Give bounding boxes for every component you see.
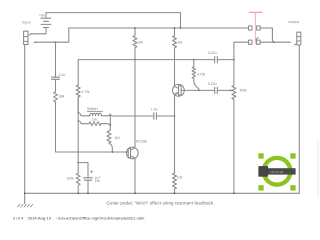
wire emitter net y116 [110, 115, 174, 118]
wire tap to electrolytic [78, 163, 88, 178]
logo banner block [258, 166, 268, 177]
logo green ring [264, 158, 291, 185]
resistor R10 10k [173, 116, 177, 193]
svg-text:0.1u: 0.1u [59, 73, 66, 77]
logo corner pads [258, 153, 263, 158]
svg-text:circuit lab: circuit lab [270, 170, 283, 174]
svg-text:2 of 4 2014-Aug-19 ~/Lin: 2 of 4 2014-Aug-19 ~/Linux/OpenOffice.or… [13, 215, 145, 220]
svg-text:100k: 100k [66, 176, 74, 180]
wire ground rail [25, 192, 300, 194]
svg-text:68k: 68k [59, 95, 65, 99]
wiper arrow into 500k [227, 89, 230, 91]
resistor R3 1k2 [173, 28, 177, 87]
svg-text:4.70k: 4.70k [197, 73, 206, 77]
svg-text:+9v: +9v [39, 13, 45, 17]
capacitor C5 4u7 electrolytic [84, 178, 93, 180]
wire Q1 base right [182, 89, 215, 91]
node pair right top [109, 114, 111, 116]
svg-text:500mH: 500mH [87, 107, 98, 111]
logo frame faint [317, 140, 319, 197]
node pair left top [77, 112, 79, 114]
wire row1 right bend to row2 [260, 28, 274, 42]
capacitor C2 0.22u [215, 56, 218, 62]
resistor R5 13n (parallel with L1) [78, 121, 89, 124]
resistor R9 100k [76, 163, 80, 194]
inductor L1 500mH [78, 113, 90, 116]
svg-text:0.22u: 0.22u [208, 51, 217, 55]
svg-text:1k1: 1k1 [115, 136, 121, 140]
node 1k1 to base wire [111, 151, 113, 153]
node pair right bottom [109, 124, 111, 126]
svg-text:Guitar pedal, "WAH" effect: Guitar pedal, "WAH" effect using resonan… [106, 201, 214, 206]
gang pot P1 row2 element [249, 40, 253, 44]
wire input jack sleeve down [24, 45, 26, 194]
resistor R6 1k1 [107, 130, 111, 144]
capacitor C4 0.22u [215, 87, 218, 93]
resistor R2 22k [133, 28, 137, 60]
svg-text:22k: 22k [138, 40, 144, 44]
output contact tick [295, 44, 297, 45]
node dot 22k bottom [134, 59, 136, 61]
wire switch to riser [35, 28, 69, 42]
resistor R1 68k [54, 92, 58, 102]
wiper tick row2 [256, 38, 258, 40]
capacitor C1 0.1u [52, 77, 60, 79]
node Q1 base junction [198, 90, 200, 92]
node row2 junction [274, 41, 276, 43]
node rail dots [77, 192, 79, 194]
node pair left bottom [77, 120, 79, 122]
output jack J2 [297, 32, 301, 45]
svg-text:16v: 16v [95, 179, 101, 183]
svg-text:input: input [22, 20, 31, 24]
node Q1 emitter junction [174, 115, 176, 117]
wire output sleeve down [298, 45, 300, 193]
transistor Q1 (mirrored) [173, 84, 185, 96]
node dot riser right [233, 59, 235, 61]
capacitor C3 1.0u [154, 113, 157, 119]
node dot 470k top [193, 59, 195, 61]
wire riser to gang row2 [234, 42, 249, 59]
logo banner [258, 168, 295, 174]
red mechanical link (pedal) [249, 12, 263, 44]
potentiometer R8 500k body [232, 60, 236, 194]
wire +9V rail top [46, 13, 181, 28]
svg-text:13n: 13n [92, 118, 98, 122]
input jack J1 [24, 31, 28, 44]
wire signal rail y28 [69, 27, 249, 29]
transistor Q2 BC338 [126, 147, 138, 159]
svg-text:0.22u: 0.22u [208, 82, 217, 86]
wire row2 to output jack [260, 41, 289, 43]
wire 22k line down to Q2 collector [134, 60, 136, 148]
wire 68k to Q2 base [56, 102, 129, 152]
svg-text:4.70k: 4.70k [81, 90, 90, 94]
resistor R4 4.70k (left) [76, 60, 80, 113]
svg-text:500k: 500k [240, 89, 248, 93]
wire C4 to pot arrow [217, 89, 227, 91]
gang pot P1 row1 element [249, 26, 253, 30]
wire battery minus to input jack tip [31, 33, 46, 35]
svg-text:1.0u: 1.0u [151, 107, 158, 111]
svg-text:10k: 10k [177, 176, 183, 180]
battery B1 [45, 13, 47, 34]
wire down to C1 [55, 42, 57, 77]
svg-text:BC338: BC338 [136, 140, 146, 144]
ground chassis symbol [24, 193, 26, 203]
switch SW1 contact arrow [33, 41, 35, 43]
wire mid net y59.6 [78, 59, 234, 61]
wire pair right vertical [109, 114, 111, 130]
node A (tap to 0.1u chain) [55, 41, 57, 43]
wire pair left vertical down [77, 97, 79, 163]
svg-text:output: output [288, 20, 300, 24]
svg-text:1k2: 1k2 [177, 40, 183, 44]
resistor R7 4.70k (right) [192, 60, 199, 91]
node emitter RC tap [77, 162, 79, 164]
